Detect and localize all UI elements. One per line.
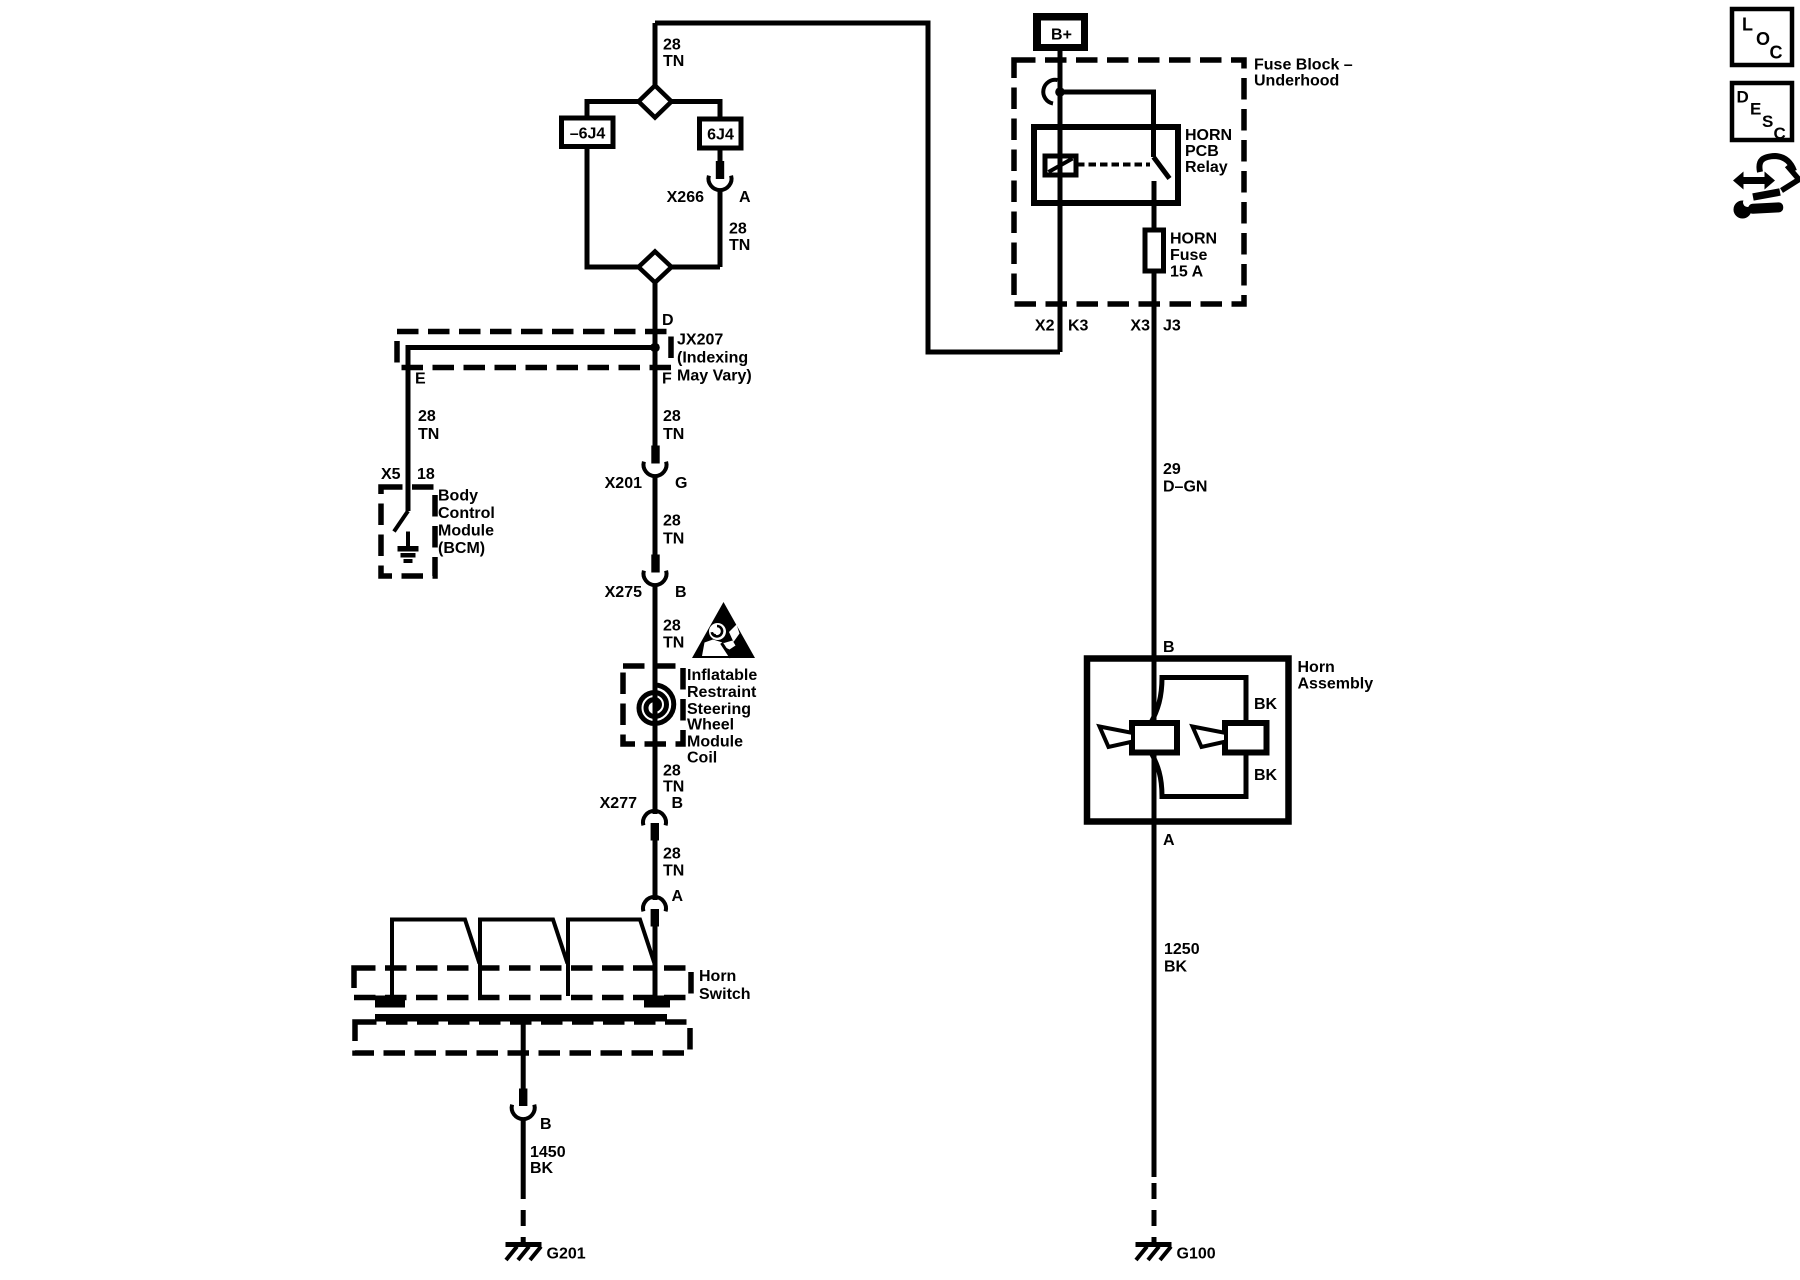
connector A socket dome: [643, 897, 666, 912]
svg-text:HORN: HORN: [1170, 231, 1217, 248]
connector X201 pin G: [651, 446, 659, 464]
label X275 B: [605, 584, 687, 601]
terminal hook at B+ junction: [1043, 80, 1057, 104]
wire right into merge diamond: [672, 265, 721, 270]
svg-text:TN: TN: [663, 531, 684, 548]
label 28 TN (below coil): [663, 763, 684, 796]
component box -6J4: [562, 118, 614, 147]
label 28 TN (E branch): [418, 408, 439, 443]
wire through coil box: [653, 666, 658, 744]
svg-text:1450: 1450: [530, 1144, 566, 1161]
svg-text:X2: X2: [1035, 318, 1055, 335]
svg-text:TN: TN: [729, 237, 750, 254]
connector A pin: [651, 909, 659, 927]
svg-text:G201: G201: [547, 1246, 586, 1263]
BCM internal ground: [398, 532, 419, 564]
svg-text:D: D: [662, 312, 674, 329]
svg-text:6J4: 6J4: [707, 127, 734, 144]
wire connector B down: [521, 1119, 526, 1183]
svg-text:BK: BK: [530, 1160, 554, 1177]
label 29 D-GN: [1163, 461, 1207, 496]
connector block JX207 dashed box: [397, 332, 671, 368]
svg-text:B: B: [540, 1116, 552, 1133]
wire relay to fuse: [1152, 181, 1157, 230]
label X3 J3: [1130, 318, 1180, 335]
svg-text:(BCM): (BCM): [438, 540, 485, 557]
horn switch contact pad right: [644, 996, 670, 1008]
wire from top into splice diamond: [653, 23, 658, 86]
svg-text:28: 28: [663, 846, 681, 863]
svg-text:TN: TN: [663, 426, 684, 443]
relay actuation dashed link: [1077, 163, 1150, 167]
connector X201 socket: [644, 462, 667, 477]
svg-text:BK: BK: [1254, 696, 1278, 713]
svg-text:28: 28: [729, 221, 747, 238]
svg-text:B+: B+: [1051, 27, 1072, 44]
horn switch cell 1: [392, 920, 480, 997]
label 28 TN (F branch): [663, 408, 684, 443]
svg-text:F: F: [662, 371, 672, 388]
wire X201 to X275: [653, 476, 658, 555]
connector X277 pin: [651, 823, 659, 841]
svg-text:Switch: Switch: [699, 986, 751, 1003]
label 28 TN (above horn switch): [663, 846, 684, 880]
ground G100: [1136, 1245, 1172, 1261]
wire diamond to -6J4: [587, 102, 639, 119]
coil dashed box: [623, 666, 683, 744]
svg-text:A: A: [739, 189, 751, 206]
svg-text:28: 28: [663, 513, 681, 530]
svg-text:HORN: HORN: [1185, 127, 1232, 144]
label Fuse Block - Underhood: [1254, 57, 1353, 90]
connector X277 socket dome: [643, 811, 666, 826]
svg-text:X275: X275: [605, 584, 642, 601]
svg-text:28: 28: [418, 408, 436, 425]
svg-text:S: S: [1762, 112, 1773, 131]
svg-text:Body: Body: [438, 488, 478, 505]
label HORN PCB Relay: [1185, 127, 1232, 176]
relay coil: [1045, 156, 1076, 175]
svg-text:E: E: [1750, 100, 1761, 119]
label X2 K3: [1035, 318, 1089, 335]
BCM internal switch blade: [394, 511, 408, 532]
svg-text:X201: X201: [605, 475, 642, 492]
svg-text:D: D: [1737, 88, 1749, 107]
wire merge diamond down through JX207: [653, 283, 658, 447]
wire diamond to 6J4: [672, 102, 721, 120]
horn 1 element: [1100, 723, 1178, 753]
warning triangle airbag symbol: [692, 602, 755, 658]
svg-text:Assembly: Assembly: [1298, 676, 1374, 693]
module BCM dashed box: [381, 487, 435, 576]
svg-text:X3: X3: [1130, 318, 1150, 335]
clockspring coil spiral: [639, 685, 674, 724]
label X5 18: [381, 466, 435, 483]
horn switch common bar: [375, 1014, 667, 1022]
label 1450 BK: [530, 1144, 566, 1177]
label Horn Assembly: [1298, 659, 1374, 693]
splice diamond S1 top: [639, 86, 672, 118]
wire coil to X277: [653, 744, 658, 814]
svg-text:TN: TN: [663, 863, 684, 880]
horn switch cell 2: [480, 920, 568, 997]
svg-text:PCB: PCB: [1185, 143, 1219, 160]
label Inflatable Restraint Steering Wheel Module Coil: [687, 667, 757, 767]
svg-text:TN: TN: [663, 635, 684, 652]
svg-text:(Indexing: (Indexing: [677, 350, 748, 367]
svg-text:G100: G100: [1177, 1246, 1216, 1263]
connector X275 socket: [644, 571, 667, 586]
svg-text:K3: K3: [1068, 318, 1089, 335]
svg-text:Underhood: Underhood: [1254, 73, 1339, 90]
wire X277 to connector A: [653, 840, 658, 900]
svg-text:29: 29: [1163, 461, 1181, 478]
ground G201: [506, 1245, 542, 1261]
wire bar to connector B: [521, 1021, 526, 1089]
svg-text:Relay: Relay: [1185, 159, 1228, 176]
svg-text:28: 28: [663, 618, 681, 635]
svg-text:B: B: [1163, 639, 1175, 656]
label X201 G: [605, 475, 688, 492]
svg-text:TN: TN: [663, 53, 684, 70]
label X266 A: [667, 189, 751, 206]
svg-text:28: 28: [663, 408, 681, 425]
svg-text:J3: J3: [1163, 318, 1181, 335]
horn switch dashed box: [354, 968, 691, 998]
label 1250 BK: [1164, 941, 1200, 976]
wire connector A to horn switch pad: [653, 927, 658, 997]
svg-text:TN: TN: [663, 779, 684, 796]
label Horn Switch: [699, 968, 751, 1003]
svg-text:E: E: [415, 371, 426, 388]
svg-text:28: 28: [663, 37, 681, 54]
wire fuse down to horn assembly: [1152, 271, 1157, 1177]
connector X275 pin B: [651, 555, 659, 573]
horn assembly box: [1087, 659, 1289, 822]
label X277 B: [600, 795, 683, 812]
svg-text:X5: X5: [381, 466, 401, 483]
svg-text:15 A: 15 A: [1170, 264, 1204, 281]
dashed wire to G201: [521, 1183, 526, 1242]
horn inner loop wiring: [1151, 678, 1247, 797]
svg-text:Horn: Horn: [699, 968, 736, 985]
label 28 TN top: [663, 37, 684, 71]
button DESC: [1732, 83, 1792, 143]
connector X266 socket: [709, 176, 732, 191]
dashed wire to G100: [1152, 1183, 1157, 1242]
svg-text:Restraint: Restraint: [687, 684, 757, 701]
svg-text:Fuse: Fuse: [1170, 247, 1207, 264]
steering column dashed box: [355, 1022, 690, 1053]
svg-text:Wheel: Wheel: [687, 717, 734, 734]
svg-text:Module: Module: [687, 734, 743, 751]
svg-text:Steering: Steering: [687, 701, 751, 718]
svg-text:X277: X277: [600, 795, 637, 812]
svg-text:L: L: [1742, 15, 1753, 35]
svg-text:C: C: [1770, 43, 1783, 63]
wire -6J4 to merge diamond: [587, 147, 639, 268]
svg-text:–6J4: –6J4: [570, 126, 606, 143]
svg-text:Inflatable: Inflatable: [687, 667, 757, 684]
svg-text:18: 18: [417, 466, 435, 483]
button LOC: [1732, 9, 1792, 65]
power feed B+ box: [1033, 13, 1088, 51]
label 28 TN (X266 branch): [729, 221, 750, 255]
label JX207 (Indexing May Vary): [677, 332, 752, 385]
svg-text:Module: Module: [438, 523, 494, 540]
wire B+ down through fuse block: [1058, 51, 1063, 352]
svg-text:X266: X266: [667, 189, 704, 206]
svg-text:28: 28: [663, 763, 681, 780]
svg-text:BK: BK: [1164, 959, 1188, 976]
wire X275 to coil: [653, 585, 658, 666]
wire branch to relay switch: [1060, 92, 1154, 157]
horn switch contact pad left: [375, 996, 405, 1008]
wire 6J4 to connector X266: [718, 148, 723, 162]
relay box HORN PCB Relay: [1034, 127, 1178, 203]
fuse HORN 15A: [1145, 230, 1164, 271]
relay switch blade: [1154, 157, 1170, 179]
svg-text:A: A: [1163, 832, 1175, 849]
label 28 TN (below X275): [663, 618, 684, 652]
label 28 TN (below X201): [663, 513, 684, 548]
junction dot B+ branch: [1055, 87, 1065, 97]
svg-text:B: B: [672, 795, 684, 812]
horn 2 element: [1193, 723, 1267, 753]
connector B socket: [512, 1105, 535, 1120]
svg-text:May Vary): May Vary): [677, 368, 752, 385]
junction dot JX207: [650, 343, 660, 353]
svg-text:Control: Control: [438, 505, 495, 522]
svg-text:JX207: JX207: [677, 332, 723, 349]
svg-text:G: G: [675, 475, 687, 492]
svg-text:BK: BK: [1254, 767, 1278, 784]
svg-text:B: B: [675, 584, 687, 601]
wire jumper D-E inside JX207: [408, 348, 655, 512]
svg-text:A: A: [672, 888, 684, 905]
component box 6J4: [700, 119, 742, 148]
label HORN Fuse 15 A: [1170, 231, 1217, 281]
svg-text:C: C: [1774, 124, 1786, 143]
connector X266 pin A: [716, 161, 724, 179]
connector B pin: [519, 1089, 527, 1107]
svg-text:O: O: [1756, 29, 1770, 49]
svg-text:TN: TN: [418, 426, 439, 443]
svg-text:1250: 1250: [1164, 941, 1200, 958]
svg-text:Horn: Horn: [1298, 659, 1335, 676]
wire X266 to merge diamond: [718, 191, 723, 268]
splice diamond S2 bottom: [639, 252, 672, 283]
label Body Control Module (BCM): [438, 488, 495, 558]
fuse block underhood dashed box: [1014, 60, 1244, 304]
horn switch cell 3: [568, 920, 655, 997]
svg-text:Coil: Coil: [687, 750, 717, 767]
svg-text:D–GN: D–GN: [1163, 479, 1207, 496]
svg-text:Fuse Block –: Fuse Block –: [1254, 57, 1353, 74]
wire top loop from splice to B+ feed: [655, 23, 1060, 352]
icon wiring repair: [1733, 156, 1799, 219]
